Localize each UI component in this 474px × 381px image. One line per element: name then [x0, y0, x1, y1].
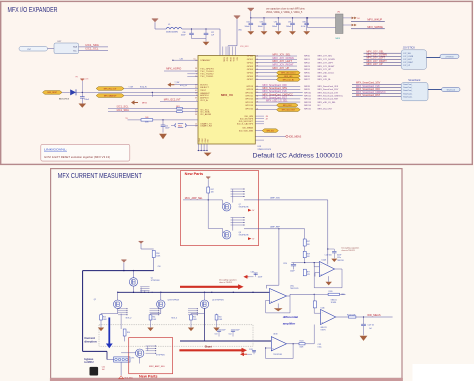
- svg-text:VDD2: VDD2: [226, 57, 228, 61]
- svg-text:JOYSTICK: JOYSTICK: [403, 46, 416, 49]
- svg-text:R120: R120: [329, 291, 333, 293]
- svg-text:JOY_UP: JOY_UP: [403, 65, 411, 67]
- svg-text:100nF: 100nF: [337, 254, 342, 256]
- svg-text:MFX1: MFX1: [304, 59, 310, 61]
- svg-text:REJECT: REJECT: [200, 87, 209, 89]
- wire lower sense line (thick): [180, 340, 271, 342]
- svg-text:Q7: Q7: [239, 204, 241, 206]
- svg-text:31: 31: [195, 110, 197, 112]
- svg-text:MFX4: MFX4: [304, 69, 310, 71]
- net MFX_JOY_UP (joystick): [364, 64, 402, 66]
- net MFX_JOY_UP: [255, 68, 297, 70]
- svg-text:GPI01: GPI01: [247, 59, 254, 61]
- svg-text:Q4 ST75PF20V: Q4 ST75PF20V: [212, 299, 224, 301]
- svg-text:C98: C98: [302, 22, 305, 24]
- svg-text:MFX9: MFX9: [304, 89, 310, 91]
- svg-text:AMP_REF: AMP_REF: [270, 225, 280, 228]
- svg-text:43: 43: [256, 108, 258, 110]
- resistor R57: [303, 239, 306, 246]
- svg-text:C94: C94: [274, 22, 277, 24]
- decoupling caps U14: [325, 249, 344, 262]
- net label hexagon MFX_IDD2_RST: [255, 109, 276, 111]
- svg-text:MFX_WKUP: MFX_WKUP: [367, 18, 382, 22]
- ground: [289, 31, 296, 35]
- svg-text:GPI03: GPI03: [247, 66, 254, 68]
- capacitor C118 + arrow: [243, 353, 247, 355]
- svg-text:SmartCard_: SmartCard_: [403, 83, 412, 86]
- svg-text:IDD_S_CAL/GP6: IDD_S_CAL/GP6: [237, 123, 254, 126]
- capacitor C91 100nF: [81, 92, 83, 96]
- svg-text:GBU121: GBU121: [321, 327, 327, 329]
- svg-text:MFX0: MFX0: [304, 56, 310, 58]
- svg-text:C95: C95: [288, 22, 291, 24]
- svg-text:100nF: 100nF: [286, 26, 292, 28]
- svg-text:MFX_JOY_UP: MFX_JOY_UP: [367, 63, 383, 66]
- wire IDD stubs: [255, 115, 264, 117]
- svg-text:MFX_JOY_RIGHT: MFX_JOY_RIGHT: [318, 66, 336, 68]
- svg-text:C24: C24: [165, 125, 168, 127]
- resistor R47 10K: [207, 187, 210, 193]
- svg-text:VSS4: VSS4: [205, 138, 207, 142]
- svg-text:MFX7: MFX7: [304, 79, 310, 81]
- capacitor C95 100nF: [292, 17, 293, 18]
- svg-text:JOY_SEL: JOY_SEL: [403, 53, 411, 55]
- svg-text:MFX4: MFX4: [142, 102, 147, 104]
- svg-text:SmartCard_: SmartCard_: [403, 95, 412, 98]
- svg-text:close to TSU121: close to TSU121: [219, 281, 232, 284]
- svg-text:J17: J17: [266, 118, 269, 120]
- wire Q4 pin ladder: [188, 308, 198, 315]
- svg-text:38: 38: [195, 68, 197, 70]
- svg-text:100nF: 100nF: [165, 128, 170, 130]
- sheet border: MFX I/O EXPANDER section: [1, 1, 473, 164]
- wire BOOT0 with arrow: [170, 84, 174, 86]
- svg-text:MFX_LCD_BL: MFX_LCD_BL: [283, 79, 294, 81]
- net MFX_JOY_SEL: [255, 55, 297, 57]
- svg-text:100nF: 100nF: [235, 330, 239, 332]
- capacitor C94 100nF: [278, 17, 279, 18]
- svg-text:MFX6: MFX6: [304, 76, 310, 78]
- svg-text:VDD_MCU: VDD_MCU: [125, 377, 134, 379]
- svg-text:JOY_RIGHT: JOY_RIGHT: [403, 62, 414, 64]
- svg-text:MFX_LED: MFX_LED: [318, 76, 328, 78]
- resistor R54 (gate): [120, 314, 122, 329]
- capacitor C120 100nF: [293, 263, 295, 265]
- net MFX_SmartCard_CMDVCC (smartcard): [352, 93, 401, 95]
- power flag VDD (inductor): [152, 19, 158, 22]
- arrow MFX_SWIRE pin: [352, 24, 354, 27]
- net MFX_JOY_DOWN (joystick): [364, 55, 402, 57]
- svg-text:STL6P3LLH6: STL6P3LLH6: [239, 235, 249, 237]
- svg-text:100nF: 100nF: [258, 277, 262, 279]
- svg-text:MFX_IRQ_OUT: MFX_IRQ_OUT: [104, 88, 118, 90]
- white page corner: [413, 364, 474, 381]
- ground (under L1 caps): [205, 39, 207, 42]
- svg-text:differential: differential: [283, 315, 299, 319]
- svg-text:GPIO8: GPIO8: [246, 86, 253, 88]
- connector CN7 pill: [19, 46, 48, 51]
- ground: [303, 31, 310, 35]
- wire CN7 to U17: [48, 48, 55, 50]
- wire gate bus row: [101, 313, 118, 315]
- svg-text:MFX_NRST: MFX_NRST: [47, 92, 58, 94]
- svg-text:100nF: 100nF: [181, 35, 186, 37]
- transistor Q3: [160, 292, 162, 300]
- svg-text:MFX2: MFX2: [304, 62, 310, 64]
- wire rail down to IC top: [219, 29, 221, 56]
- IC U13 right pin names GPIO8-15: [245, 86, 254, 110]
- IC U13 right pin names IDD group: [237, 116, 254, 133]
- svg-text:MFX_I2C2_INT: MFX_I2C2_INT: [318, 108, 333, 110]
- svg-text:MOS_U: MOS_U: [126, 318, 132, 320]
- svg-text:R53: R53: [219, 316, 222, 318]
- ground: [261, 31, 268, 35]
- net IDD_MEAS diamond: [255, 135, 285, 137]
- wire diff out bus: [287, 295, 291, 297]
- transistor Q6: [121, 352, 135, 354]
- net label hexagon MFX_WAKEUP: [96, 94, 124, 98]
- svg-text:C121: C121: [318, 344, 322, 346]
- wire IC top pin stubs: [222, 47, 224, 56]
- ground: [147, 328, 153, 332]
- svg-text:MFX_SmartCard_3/5V: MFX_SmartCard_3/5V: [318, 88, 339, 91]
- resistor R50 column: [100, 314, 102, 315]
- svg-text:1uF: 1uF: [211, 35, 214, 37]
- net MFX_SmartCard_OFF (smartcard): [352, 90, 401, 92]
- wire to jumper: [307, 17, 336, 19]
- svg-text:MFX_LCD_BL: MFX_LCD_BL: [318, 79, 332, 81]
- svg-text:IDD_MEAS: IDD_MEAS: [367, 313, 381, 317]
- svg-text:MFX3: MFX3: [304, 66, 310, 68]
- svg-text:E15Q_IN: E15Q_IN: [180, 85, 188, 87]
- capacitor C92 100nF: [250, 17, 251, 18]
- svg-text:VDD_MFX: VDD_MFX: [240, 46, 249, 48]
- svg-text:C93: C93: [260, 22, 263, 24]
- net MFX_JOY_DOWN: [255, 58, 297, 60]
- svg-text:MFX10: MFX10: [304, 92, 312, 94]
- svg-text:IDD_MEAS: IDD_MEAS: [242, 127, 253, 130]
- svg-text:SmartCard: SmartCard: [447, 89, 455, 92]
- svg-text:1P-M05: 1P-M05: [331, 302, 337, 304]
- wire TSC stubs: [187, 73, 198, 75]
- wire Q2 pin ladder: [118, 308, 128, 315]
- wire NRST to diode: [62, 91, 70, 93]
- resistor R124: [299, 343, 305, 345]
- svg-text:Decoupling capacitors: Decoupling capacitors: [219, 278, 237, 281]
- svg-text:C119: C119: [251, 271, 255, 273]
- wire IDD stub: [255, 139, 264, 141]
- net MFX_uSD_LS: [255, 101, 300, 103]
- svg-text:MFX: MFX: [336, 38, 341, 40]
- feedback loop U15B: [265, 344, 293, 359]
- wire I2C1_SCL: [108, 107, 198, 109]
- resistor R120 180K: [328, 293, 339, 295]
- connector JOYSTICK pill: [440, 54, 459, 58]
- net label hexagon MFX_IDD2: [255, 104, 276, 106]
- net MFX_JOY_RIGHT: [255, 65, 297, 67]
- svg-text:100nF: 100nF: [258, 26, 264, 28]
- svg-text:TP6: TP6: [125, 118, 128, 120]
- wire STANDBY: [173, 59, 198, 61]
- svg-text:MFX_SmartCard_CMDVCC: MFX_SmartCard_CMDVCC: [318, 94, 344, 97]
- svg-text:STMFXL152C4T6: STMFXL152C4T6: [258, 149, 272, 151]
- wire VDD to L1: [154, 22, 156, 29]
- resistor R58: [152, 251, 155, 258]
- wire Q3 pin ladder: [150, 308, 160, 315]
- svg-text:BAT60JFILM: BAT60JFILM: [59, 98, 70, 101]
- svg-text:ST75PF20V: ST75PF20V: [151, 280, 161, 282]
- svg-text:MFX_SWIRE: MFX_SWIRE: [367, 25, 383, 29]
- power flag +3V3 (diode): [80, 79, 84, 81]
- capacitor C97 1uF: [205, 29, 207, 33]
- resistor R77: [303, 269, 306, 276]
- svg-text:amplifier: amplifier: [283, 321, 296, 325]
- capacitor C53: [218, 332, 220, 337]
- svg-text:R124: R124: [300, 341, 304, 343]
- svg-text:R126 100R: R126 100R: [347, 315, 356, 317]
- svg-text:GPIO13: GPIO13: [245, 102, 254, 104]
- svg-text:MFX14: MFX14: [304, 105, 312, 107]
- ground (opamp1): [326, 282, 332, 286]
- svg-text:GPIO12: GPIO12: [245, 99, 254, 101]
- svg-text:I2C1_SCL: I2C1_SCL: [86, 47, 99, 51]
- svg-text:T_SW: T_SW: [175, 82, 180, 84]
- wire hexagon A to IC: [124, 88, 198, 90]
- svg-text:R46: R46: [145, 117, 148, 119]
- net label hexagon MFX_IRQ_OUT: [96, 87, 124, 91]
- resistor R53 column: [216, 314, 218, 315]
- svg-text:U14b: U14b: [321, 308, 325, 310]
- svg-text:SmartCard_: SmartCard_: [403, 86, 412, 89]
- svg-text:Decoupling capacitors: Decoupling capacitors: [342, 247, 360, 250]
- svg-text:IDD_VDD_MIN: IDD_VDD_MIN: [239, 131, 254, 133]
- svg-text:MFX_AMP_SEL: MFX_AMP_SEL: [149, 365, 166, 368]
- transistor Q4: [204, 292, 206, 300]
- svg-text:MFX_SmartCard_OFF: MFX_SmartCard_OFF: [318, 85, 339, 88]
- connector SmartCard pill: [442, 87, 461, 91]
- svg-text:13: 13: [195, 126, 197, 128]
- ground: [98, 328, 104, 332]
- net MFX_SmartCard_OFF: [255, 85, 300, 87]
- svg-text:MFX_IDD: MFX_IDD: [267, 130, 275, 132]
- capacitor C24 100nF: [162, 120, 164, 125]
- svg-text:JOY_DOWN: JOY_DOWN: [403, 56, 414, 58]
- wire op4 output: [287, 343, 300, 345]
- arrow + net tag (AGPIO): [134, 102, 138, 104]
- svg-text:Default I2C Address 1000010: Default I2C Address 1000010: [253, 152, 344, 159]
- capacitor C52 (black tantalum): [90, 367, 99, 376]
- svg-text:1uF: 1uF: [369, 328, 372, 330]
- arrow MFX_WKUP pin: [352, 17, 354, 20]
- svg-text:use capacitors close to each M: use capacitors close to each MFX pins:: [266, 8, 306, 11]
- svg-text:MFX15: MFX15: [304, 108, 312, 110]
- svg-text:SCL: SCL: [73, 50, 77, 52]
- net MFX_JOY_RIGHT (joystick): [364, 61, 402, 63]
- svg-text:C92: C92: [246, 22, 249, 24]
- svg-text:GOVI & EXT RESET evolution tog: GOVI & EXT RESET evolution together (MFX…: [44, 155, 110, 159]
- svg-text:VDD4: VDD4: [229, 57, 231, 61]
- svg-text:MFX8: MFX8: [304, 86, 310, 88]
- net MFX_JOY_SEL (joystick): [364, 52, 402, 54]
- net label hexagon MFX_uSD_Detect: [255, 72, 276, 74]
- svg-text:MFX CURRENT MEASUREMENT: MFX CURRENT MEASUREMENT: [58, 173, 143, 180]
- svg-text:bypass: bypass: [84, 357, 93, 361]
- feedback loop diff amp: [266, 300, 290, 313]
- svg-text:MFX_IDD2_RST: MFX_IDD2_RST: [282, 110, 296, 112]
- svg-text:MFX_IDD2: MFX_IDD2: [283, 105, 292, 107]
- New Parts box (bottom): [129, 338, 173, 374]
- svg-text:New Parts: New Parts: [185, 172, 204, 176]
- capacitor C125 1uF: [363, 317, 365, 324]
- svg-text:C118: C118: [249, 349, 253, 351]
- svg-text:100nF: 100nF: [244, 26, 250, 28]
- svg-text:AMP_VDD: AMP_VDD: [270, 197, 280, 200]
- ground: [79, 104, 87, 108]
- wire Q4 drain to lower bus: [204, 308, 206, 341]
- svg-text:MFX_SmartCard_1V8: MFX_SmartCard_1V8: [318, 91, 339, 94]
- power flag VDD (left small): [234, 16, 240, 19]
- svg-text:ST1PS: ST1PS: [321, 329, 326, 331]
- dashed annotation box: [99, 325, 253, 346]
- svg-text:to MCU: to MCU: [84, 360, 93, 364]
- svg-text:MFX_uSD_Detect: MFX_uSD_Detect: [318, 71, 335, 74]
- op-amp U15B: [271, 337, 286, 351]
- solder bridge SB14: [175, 124, 176, 127]
- transistor Q5: [133, 271, 135, 278]
- svg-text:SmartCard_: SmartCard_: [403, 89, 412, 92]
- wire Q6 ladder: [146, 346, 157, 354]
- svg-text:SB14: SB14: [178, 125, 182, 127]
- svg-text:GPI05: GPI05: [247, 72, 254, 74]
- svg-text:T_SW: T_SW: [128, 87, 133, 89]
- wire Q8 ladder: [208, 217, 244, 233]
- svg-text:36: 36: [195, 114, 197, 116]
- svg-text:MOS_U: MOS_U: [172, 318, 178, 320]
- wire AMP_VDD run: [244, 199, 328, 201]
- svg-text:JOY_LEFT: JOY_LEFT: [403, 59, 413, 61]
- svg-text:I2C_ADDR: I2C_ADDR: [200, 113, 211, 116]
- power flag VDD (cap bank): [248, 8, 254, 11]
- resistor R44 (series): [177, 108, 183, 110]
- svg-text:C52: C52: [102, 366, 105, 368]
- wire bus to opamp3: [313, 294, 315, 313]
- wire opamp1 output + feedback: [335, 268, 343, 270]
- resistor R126: [348, 316, 356, 318]
- wire IC bottom stubs + ground: [198, 144, 212, 156]
- svg-text:GPIO14: GPIO14: [245, 105, 254, 107]
- svg-text:+3V3: +3V3: [85, 79, 89, 81]
- wire Q5 pin ladder: [140, 287, 152, 293]
- wire caps tie: [192, 38, 207, 40]
- svg-text:MFX_AGPIO: MFX_AGPIO: [166, 66, 181, 70]
- svg-text:1/16u: 1/16u: [318, 347, 322, 349]
- wire AMP_REF run: [244, 228, 305, 230]
- svg-text:VSS2: VSS2: [202, 138, 204, 142]
- svg-text:-: -: [322, 311, 323, 314]
- svg-text:100nF: 100nF: [221, 330, 225, 332]
- net label hexagon MFX_LED: [255, 75, 276, 77]
- net MFX_SmartCard_3/5V: [255, 88, 300, 90]
- svg-text:38: 38: [195, 93, 197, 95]
- svg-text:MFX_I2C2_INT: MFX_I2C2_INT: [164, 99, 181, 102]
- svg-text:E15Q_IN: E15Q_IN: [140, 87, 147, 89]
- wire addr row: [128, 119, 199, 121]
- net label hexagon NRST: [43, 91, 63, 95]
- capacitor C96 100nF: [191, 29, 193, 33]
- svg-text:MFX_uSD_LS_SEL: MFX_uSD_LS_SEL: [318, 102, 337, 104]
- note box (GOVI/EXT RESET): [41, 144, 130, 161]
- wire I2C1_SCL: [79, 49, 109, 51]
- net MFX_JOY_LEFT (joystick): [364, 58, 402, 60]
- ground: [275, 31, 282, 35]
- wire diff amp ref input: [267, 284, 279, 286]
- svg-text:39: 39: [195, 98, 197, 100]
- svg-text:VSS: VSS: [208, 139, 210, 142]
- transistor Q8 (PMOS): [223, 231, 231, 239]
- svg-text:MFX_JOY_SEL: MFX_JOY_SEL: [318, 56, 333, 58]
- svg-text:GPI07: GPI07: [247, 79, 254, 81]
- svg-text:GPIO10: GPIO10: [245, 92, 254, 94]
- net MFX_SmartCard_CMDVCC: [255, 95, 302, 97]
- svg-text:TSU121/U5: TSU121/U5: [273, 354, 282, 356]
- wire mid bus: [118, 291, 211, 293]
- IC U13 pin numbers: [195, 56, 258, 128]
- svg-text:VDD5: VDD5: [232, 57, 234, 61]
- svg-text:600R@100MHz: 600R@100MHz: [166, 31, 178, 33]
- svg-text:GBU121: GBU121: [331, 299, 337, 301]
- svg-text:GPI02: GPI02: [247, 62, 254, 64]
- svg-text:MFX_JOY_UP: MFX_JOY_UP: [273, 66, 290, 70]
- wire source rail (thick): [83, 270, 154, 272]
- wire opamp1 + input: [315, 272, 319, 274]
- transistor Q7 (PMOS): [223, 203, 231, 211]
- arrow 5V (Q8): [248, 237, 252, 240]
- svg-text:SB25: SB25: [176, 106, 180, 108]
- svg-text:1/16u: 1/16u: [290, 286, 294, 288]
- power flag VDD (box1): [206, 177, 210, 179]
- wire cap bank bus: [251, 17, 307, 19]
- ESD filter U17: [54, 43, 79, 54]
- smartcard harness box: [401, 83, 428, 101]
- svg-text:MFX_uSD_LS_SEL: MFX_uSD_LS_SEL: [266, 100, 288, 103]
- ground (diff amp): [274, 308, 283, 311]
- wire main sense line (thick): [211, 291, 270, 293]
- capacitor C98 4.7uF: [306, 17, 307, 18]
- svg-text:100nF: 100nF: [272, 26, 278, 28]
- resistor R121: [313, 301, 316, 308]
- svg-text:STL6P3LLH6: STL6P3LLH6: [239, 207, 249, 209]
- IC U13 bottom pin names: [198, 137, 210, 142]
- svg-text:R50: R50: [103, 316, 106, 318]
- svg-text:TSC_TS3/G1: TSC_TS3/G1: [200, 76, 214, 78]
- svg-text:SmartCard_: SmartCard_: [403, 92, 412, 95]
- svg-text:JOYSTICK: JOYSTICK: [445, 56, 454, 58]
- wire rail to connector: [83, 350, 107, 352]
- wire SB14 to IC: [187, 124, 198, 126]
- svg-text:VDDA, VDDE_2, VDDE_4, VDDA_5: VDDA, VDDE_2, VDDE_4, VDDA_5: [266, 11, 303, 14]
- power flag VDD_MCU: [119, 376, 124, 379]
- svg-text:MFX13: MFX13: [304, 102, 312, 104]
- power flag VDD (R58): [139, 241, 144, 244]
- bus wire joystick: [426, 57, 440, 59]
- op-amp — IC U13 MFX_V3 body: [198, 56, 255, 145]
- svg-text:1.35u: 1.35u: [337, 257, 341, 259]
- svg-text:C122 100: C122 100: [325, 255, 332, 257]
- resistor R51 column: [150, 314, 152, 315]
- svg-text:MFX_SmartCard_RST: MFX_SmartCard_RST: [356, 94, 381, 97]
- svg-text:MFX_V3: MFX_V3: [221, 93, 233, 97]
- wire connector down to VDD_MCU: [120, 362, 122, 375]
